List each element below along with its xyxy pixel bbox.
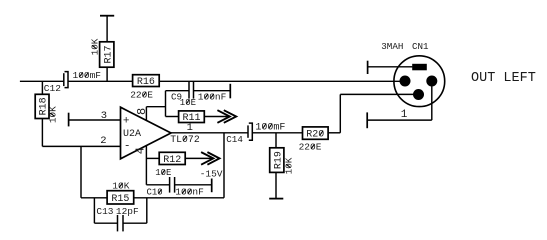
svg-text:TL072: TL072 [170,134,200,145]
resistor R18 [35,94,49,118]
resistor R17 [100,42,114,67]
wire (pin 8 lead) [145,107,147,121]
wire [368,66,412,68]
wire (main bus left) [20,80,64,82]
resistor R12 [159,152,185,164]
pin 4 [134,147,148,154]
terminal (C9 output) [229,84,231,99]
wire [94,222,117,224]
svg-text:C13: C13 [96,206,113,217]
svg-text:3: 3 [101,110,107,122]
ground bar [269,198,283,200]
svg-text:-: - [124,140,131,152]
power bar (R17 supply) [100,15,114,17]
wire [80,146,82,197]
value 10K (R19) [284,157,295,174]
svg-text:R17: R17 [103,45,114,63]
wire [81,197,107,199]
wire [146,184,169,186]
wire (feedback) [223,133,225,198]
svg-text:1: 1 [401,109,408,121]
arrow out (lower) [201,152,213,165]
wire [68,80,133,82]
wire [175,184,212,186]
svg-text:10K: 10K [284,157,295,174]
svg-text:R15: R15 [111,194,129,205]
svg-text:100nF: 100nF [175,187,204,198]
svg-text:8: 8 [135,108,149,115]
wire [41,119,43,147]
svg-text:10K: 10K [112,181,129,192]
wire [275,133,277,148]
XLR pin (right) [426,76,437,87]
wire [431,81,433,120]
capacitor C14 [247,125,249,137]
value 10K (R17) [90,38,101,55]
svg-text:10E: 10E [180,98,196,108]
resistor R16 [133,75,160,87]
value 10K (R18) [48,106,59,123]
svg-text:R20: R20 [306,130,324,141]
svg-text:220E: 220E [299,142,322,153]
svg-text:10K: 10K [90,38,101,55]
svg-text:12pF: 12pF [116,206,139,217]
XLR pin (left) [400,76,411,87]
wire [123,222,147,224]
wire [93,198,95,223]
svg-text:+: + [123,115,130,127]
connector CN1 (XLR) [394,56,445,107]
arrow out (upper) [217,110,229,123]
wire (bus to connector) [159,80,405,82]
svg-text:CN1: CN1 [412,41,429,52]
terminal (pin 3 input) [68,113,70,127]
wire [166,90,190,92]
svg-text:3MAH: 3MAH [381,41,403,52]
wire [146,157,159,159]
wire (pin 3 input) [69,119,121,121]
svg-text:-15V: -15V [200,168,223,179]
wire [146,106,165,108]
terminal (shield) [367,61,369,74]
capacitor C9 [188,81,190,98]
resistor R11 [179,111,205,123]
svg-text:100mF: 100mF [73,70,102,81]
svg-text:C10: C10 [147,188,163,198]
wire (op-amp output) [171,132,248,134]
op-amp U2A [121,107,172,159]
svg-text:4: 4 [134,147,148,154]
svg-text:R16: R16 [137,77,155,88]
wire [204,116,230,118]
wire [275,172,277,198]
svg-text:C14: C14 [226,134,243,145]
wire [146,198,148,223]
capacitor C12 [63,73,65,86]
wire (pin 4 lead) [145,145,147,184]
svg-text:OUT LEFT: OUT LEFT [471,71,536,86]
wire [41,81,43,94]
XLR pin (bottom) [413,89,424,100]
svg-text:220E: 220E [130,90,153,101]
wire [106,16,108,42]
wire [367,119,432,121]
svg-text:100mF: 100mF [255,123,285,134]
resistor R20 [303,127,329,139]
svg-text:2: 2 [100,135,106,147]
capacitor C10 [169,177,171,193]
pin 8 [135,108,149,115]
wire [185,157,213,159]
wire [339,94,341,132]
wire (pin 2 input) [42,145,120,147]
capacitor C13 [117,215,119,231]
wire [194,90,230,92]
svg-text:C12: C12 [44,83,61,94]
wire [134,197,224,199]
resistor R15 [107,191,134,204]
svg-text:R12: R12 [163,155,181,166]
wire [106,67,108,81]
terminal (XLR pin 1) [366,112,368,128]
wire (to XLR pin 2) [340,93,418,95]
svg-text:100nF: 100nF [198,92,227,103]
wire [252,132,302,134]
terminal (-15V) [211,179,213,193]
connector key tab [412,64,427,71]
wire [166,116,179,118]
svg-text:10K: 10K [48,106,59,123]
wire (node X) [165,91,167,117]
wire [328,132,340,134]
resistor R19 [270,148,284,173]
svg-text:10E: 10E [155,168,171,178]
svg-text:U2A: U2A [123,129,141,140]
